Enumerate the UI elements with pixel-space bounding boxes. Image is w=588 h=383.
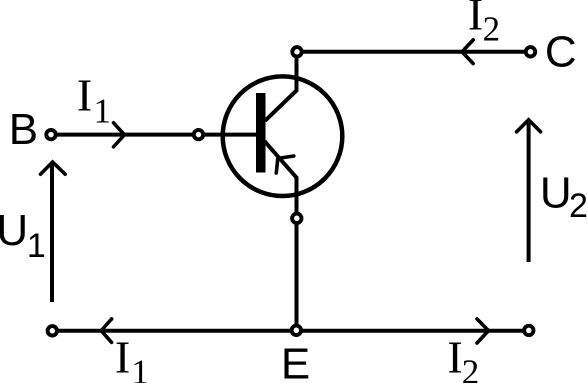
svg-text:U: U bbox=[540, 169, 572, 218]
svg-text:B: B bbox=[9, 105, 38, 154]
label I2 (bottom return current) bbox=[447, 332, 479, 383]
label I2 (collector current, top) bbox=[468, 0, 500, 49]
label U2 (output voltage) bbox=[540, 169, 588, 225]
node: bottom left terminal bbox=[48, 326, 57, 335]
node: emitter junction below transistor bbox=[292, 214, 301, 223]
current arrow I2 return (bottom right, pointing right) bbox=[477, 319, 489, 343]
label I1 (base current) bbox=[77, 70, 111, 131]
svg-text:U: U bbox=[0, 206, 28, 255]
svg-text:1: 1 bbox=[27, 227, 46, 265]
voltage arrow U2 (output voltage, pointing up) bbox=[517, 120, 541, 262]
voltage arrow U1 (input voltage, pointing up) bbox=[41, 162, 66, 302]
current arrow I1 (into base) bbox=[114, 123, 125, 147]
svg-text:E: E bbox=[281, 339, 310, 383]
transistor Q1 envelope circle bbox=[223, 76, 343, 196]
wire: bottom emitter rail bbox=[52, 329, 529, 333]
label I1 (bottom return current) bbox=[115, 332, 149, 383]
wire: base lead from terminal B to transistor bbox=[51, 133, 257, 137]
node: emitter E junction on bottom rail bbox=[292, 326, 301, 335]
svg-text:2: 2 bbox=[569, 187, 588, 225]
current arrow I2 (out of collector, pointing left) bbox=[462, 40, 473, 64]
node: terminal C bbox=[526, 47, 535, 56]
svg-text:I: I bbox=[468, 0, 483, 40]
wire: collector lead to top rail bbox=[265, 52, 531, 121]
svg-text:2: 2 bbox=[483, 10, 501, 49]
label U1 (input voltage) bbox=[0, 206, 46, 265]
svg-text:1: 1 bbox=[131, 353, 149, 383]
svg-text:C: C bbox=[545, 28, 577, 77]
node: base wire junction bbox=[194, 130, 203, 139]
svg-text:I: I bbox=[115, 332, 130, 383]
svg-text:I: I bbox=[447, 332, 462, 383]
node: collector top junction bbox=[292, 47, 301, 56]
svg-text:1: 1 bbox=[94, 91, 112, 130]
node: terminal B bbox=[46, 130, 55, 139]
wire: emitter lead down to bottom rail bbox=[265, 141, 297, 331]
node: bottom right terminal bbox=[524, 326, 533, 335]
current arrow I1 return (bottom left, pointing left) bbox=[101, 319, 111, 343]
transistor Q1 emitter arrow (PNP, pointing toward base) bbox=[276, 156, 294, 173]
svg-text:I: I bbox=[77, 70, 92, 121]
svg-text:2: 2 bbox=[462, 353, 480, 383]
transistor Q1 base bar bbox=[256, 93, 266, 173]
